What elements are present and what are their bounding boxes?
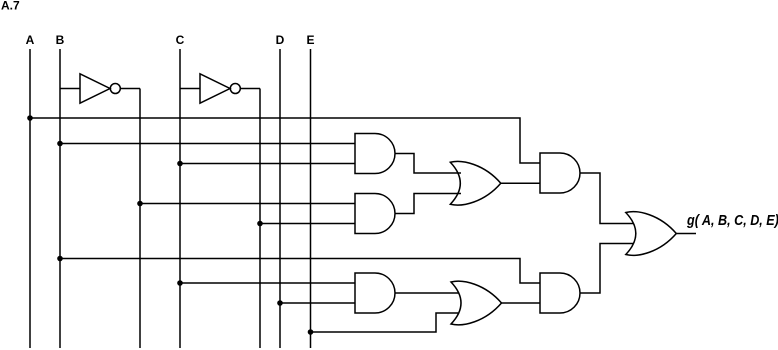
wire net B' vertical — [139, 89, 141, 349]
node C tap 1 — [177, 161, 183, 167]
wire inverter U1 output — [120, 88, 140, 90]
wire A branch to AND U5 top input — [30, 118, 540, 163]
wire B branch to AND U3 top input — [60, 143, 355, 145]
and-gate U3 — [355, 134, 395, 174]
wire U3 output to OR U2 top input — [395, 154, 461, 174]
wire U4 output to OR U2 bottom input — [395, 194, 461, 214]
and-gate U6 — [355, 273, 395, 313]
wire input line A — [29, 49, 31, 348]
node A tap — [27, 115, 33, 121]
svg-text:A.7: A.7 — [1, 0, 20, 13]
svg-text:C: C — [176, 33, 185, 47]
svg-text:E: E — [306, 33, 314, 47]
and-gate U8 — [540, 273, 580, 313]
wire U8 output to OR U9 bottom input — [580, 244, 634, 294]
or-gate U7 — [451, 281, 502, 325]
wire input line C — [179, 49, 181, 348]
inverter U2 (NOT C) — [200, 74, 240, 103]
and-gate U4 — [355, 194, 395, 234]
inverter U1 (NOT B) — [80, 74, 120, 103]
svg-text:D: D — [276, 33, 285, 47]
svg-text:g( A, B, C, D, E): g( A, B, C, D, E) — [686, 211, 778, 228]
wire input line D — [279, 49, 281, 348]
or-gate U9 — [626, 212, 677, 256]
node C tap 2 — [177, 280, 183, 286]
wire B branch to AND U8 top input — [60, 259, 540, 284]
wire D branch to AND U6 bottom input — [280, 302, 355, 304]
wire E branch to OR U7 bottom input — [311, 313, 459, 332]
wire C branch to AND U3 bottom input — [180, 163, 355, 165]
node D tap — [277, 300, 283, 306]
node B' tap — [137, 201, 143, 207]
wire input line E — [310, 49, 312, 348]
node C' tap — [257, 221, 263, 227]
wire U5 output to OR U9 top input — [580, 173, 634, 224]
wire U7 output to AND U8 bottom input — [502, 302, 541, 304]
wire input line B — [59, 49, 61, 348]
wire inverter U1 input from B — [60, 88, 80, 90]
and-gate U5 — [540, 153, 580, 193]
node B tap 2 — [57, 256, 63, 262]
wire inverter U2 input from C — [180, 88, 200, 90]
wire inverter U2 output — [240, 88, 260, 90]
svg-text:A: A — [26, 33, 35, 47]
wire U2 output to AND U5 bottom input — [501, 182, 540, 184]
wire B' branch to AND U4 top input — [140, 203, 355, 205]
wire U6 output to OR U7 top input — [395, 292, 459, 294]
svg-text:B: B — [56, 33, 65, 47]
wire U9 output — [676, 233, 696, 235]
or-gate U2 — [450, 161, 501, 205]
wire C' branch to AND U4 bottom input — [260, 223, 355, 225]
node E tap — [308, 329, 314, 335]
wire C branch to AND U6 top input — [180, 282, 355, 284]
node B tap 1 — [57, 141, 63, 147]
wire net C' vertical — [259, 89, 261, 349]
